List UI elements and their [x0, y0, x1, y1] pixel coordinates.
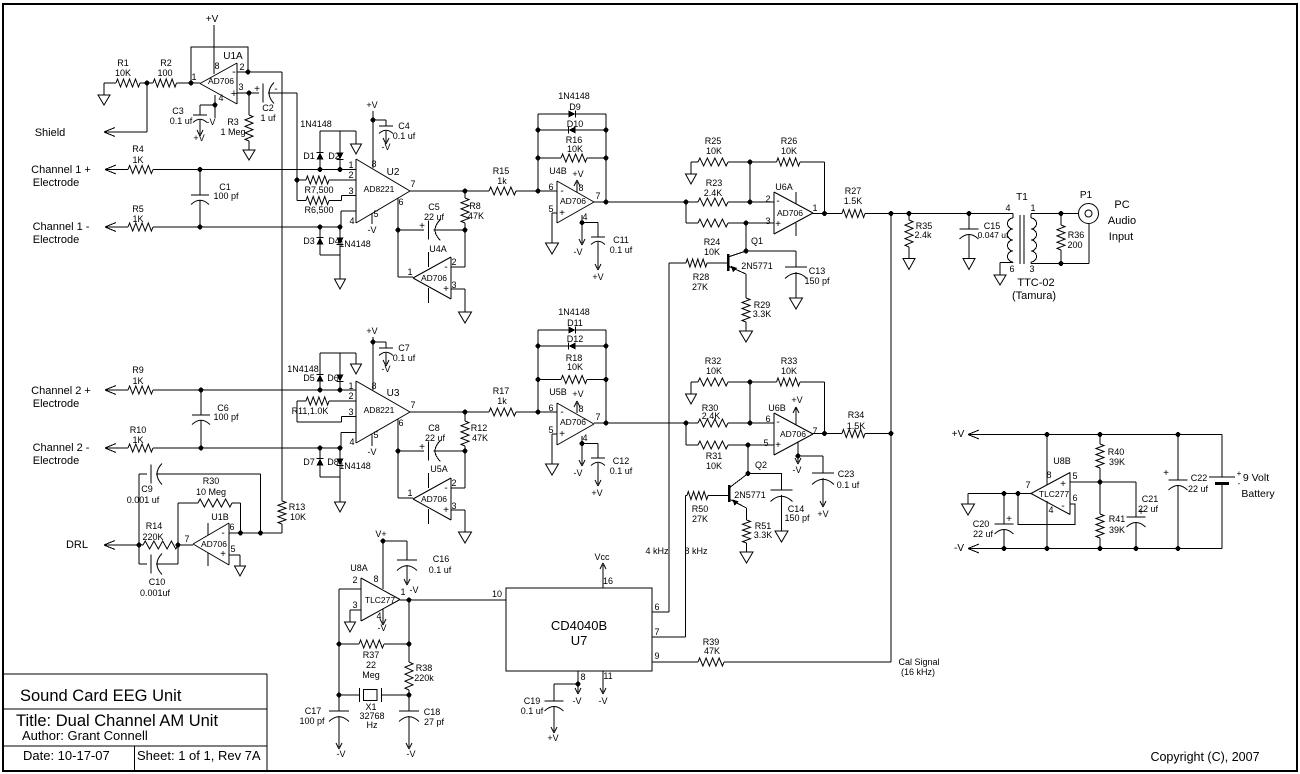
- svg-text:R23: R23: [706, 178, 723, 188]
- svg-text:R28: R28: [693, 272, 710, 282]
- svg-text:+: +: [1006, 514, 1012, 525]
- svg-text:1: 1: [407, 267, 412, 277]
- svg-text:-: -: [232, 66, 236, 78]
- svg-text:-: -: [444, 262, 447, 273]
- svg-text:2.4K: 2.4K: [704, 188, 723, 198]
- svg-text:DRL: DRL: [66, 539, 88, 551]
- svg-text:8: 8: [578, 404, 583, 414]
- svg-text:-: -: [1061, 501, 1064, 512]
- svg-text:47K: 47K: [472, 433, 488, 443]
- svg-text:7: 7: [812, 426, 817, 436]
- svg-text:R11,1.0K: R11,1.0K: [292, 406, 329, 416]
- svg-text:T1: T1: [1016, 192, 1028, 203]
- svg-text:D4: D4: [328, 236, 340, 246]
- svg-text:C21: C21: [1142, 494, 1159, 504]
- svg-text:-V: -V: [574, 247, 583, 257]
- svg-text:10K: 10K: [115, 68, 131, 78]
- svg-text:C8: C8: [428, 423, 440, 433]
- svg-text:8: 8: [371, 159, 376, 169]
- svg-text:U8B: U8B: [1053, 456, 1071, 466]
- svg-text:27K: 27K: [692, 514, 708, 524]
- svg-text:2.4k: 2.4k: [914, 230, 932, 240]
- svg-text:+V: +V: [193, 133, 204, 143]
- svg-text:R31: R31: [706, 451, 723, 461]
- svg-text:C7: C7: [398, 343, 410, 353]
- svg-text:Hz: Hz: [367, 720, 378, 730]
- svg-text:22: 22: [366, 660, 376, 670]
- svg-text:1K: 1K: [132, 214, 143, 224]
- svg-text:-V: -V: [407, 749, 416, 759]
- svg-text:220k: 220k: [414, 673, 434, 683]
- svg-text:+V: +V: [366, 326, 377, 336]
- svg-text:Audio: Audio: [1108, 215, 1136, 227]
- svg-text:U7: U7: [571, 633, 588, 648]
- svg-text:C11: C11: [613, 235, 629, 245]
- svg-text:AD706: AD706: [777, 208, 803, 218]
- svg-text:-: -: [560, 186, 563, 197]
- svg-text:10K: 10K: [781, 146, 797, 156]
- svg-text:0.1 uf: 0.1 uf: [837, 480, 860, 490]
- svg-text:-V: -V: [337, 749, 346, 759]
- svg-text:Sound Card EEG Unit: Sound Card EEG Unit: [20, 687, 182, 705]
- svg-text:3: 3: [451, 280, 456, 290]
- svg-text:-V: -V: [368, 225, 377, 235]
- svg-text:-V: -V: [368, 447, 377, 457]
- svg-text:1.5K: 1.5K: [844, 196, 863, 206]
- svg-text:0.1 uf: 0.1 uf: [393, 353, 416, 363]
- svg-text:7: 7: [595, 412, 600, 422]
- svg-text:-V: -V: [382, 364, 391, 374]
- svg-text:39K: 39K: [1109, 457, 1125, 467]
- svg-text:U5A: U5A: [430, 464, 448, 474]
- svg-text:R9: R9: [132, 365, 144, 375]
- svg-text:3: 3: [1029, 264, 1034, 274]
- svg-text:U1A: U1A: [223, 51, 243, 62]
- svg-text:1k: 1k: [497, 396, 507, 406]
- svg-text:9: 9: [654, 651, 659, 661]
- svg-text:AD8221: AD8221: [364, 405, 395, 415]
- svg-text:Electrode: Electrode: [33, 455, 79, 467]
- svg-text:C19: C19: [524, 696, 541, 706]
- svg-text:R33: R33: [781, 356, 798, 366]
- svg-text:-V: -V: [573, 696, 582, 706]
- svg-text:-V: -V: [207, 117, 216, 127]
- svg-text:8: 8: [580, 672, 585, 682]
- svg-text:Q1: Q1: [751, 236, 763, 246]
- svg-text:7: 7: [184, 534, 189, 544]
- svg-text:6: 6: [398, 418, 403, 428]
- svg-text:8: 8: [371, 381, 376, 391]
- svg-text:U6B: U6B: [768, 403, 786, 413]
- svg-text:C3: C3: [172, 106, 184, 116]
- svg-text:10K: 10K: [290, 512, 306, 522]
- svg-text:2: 2: [239, 62, 244, 72]
- svg-text:47K: 47K: [468, 211, 484, 221]
- svg-text:100: 100: [157, 68, 172, 78]
- svg-text:+: +: [775, 219, 781, 230]
- svg-text:C10: C10: [149, 577, 166, 587]
- svg-text:7: 7: [410, 179, 415, 189]
- svg-text:-V: -V: [793, 465, 802, 475]
- svg-text:AD706: AD706: [560, 196, 586, 206]
- svg-text:5: 5: [1072, 471, 1077, 481]
- svg-text:5: 5: [373, 430, 378, 440]
- svg-text:10K: 10K: [567, 144, 583, 154]
- svg-text:Channel 1 -: Channel 1 -: [33, 221, 90, 233]
- svg-text:0.1 uf: 0.1 uf: [521, 706, 544, 716]
- svg-text:6: 6: [1009, 264, 1014, 274]
- svg-text:150 pf: 150 pf: [804, 276, 830, 286]
- svg-text:2N5771: 2N5771: [734, 490, 766, 500]
- svg-text:+: +: [443, 284, 449, 295]
- svg-text:R3: R3: [227, 117, 239, 127]
- svg-text:1: 1: [191, 72, 196, 82]
- svg-text:U4A: U4A: [429, 244, 447, 254]
- svg-text:-: -: [274, 84, 277, 95]
- svg-text:V+: V+: [375, 529, 386, 539]
- svg-text:10K: 10K: [706, 146, 722, 156]
- svg-text:10 Meg: 10 Meg: [196, 487, 226, 497]
- svg-text:-: -: [221, 528, 224, 539]
- svg-text:10K: 10K: [781, 366, 797, 376]
- svg-text:Copyright (C), 2007: Copyright (C), 2007: [1150, 750, 1259, 764]
- svg-text:1: 1: [407, 488, 412, 498]
- svg-text:22 uf: 22 uf: [425, 433, 446, 443]
- svg-text:U3: U3: [387, 388, 400, 399]
- svg-text:0.1 uf: 0.1 uf: [429, 565, 452, 575]
- svg-text:6: 6: [548, 403, 553, 413]
- svg-text:C9: C9: [141, 484, 153, 494]
- svg-text:Sheet: 1 of 1, Rev 7A: Sheet: 1 of 1, Rev 7A: [137, 748, 261, 763]
- svg-text:+V: +V: [791, 395, 802, 405]
- svg-text:R5: R5: [132, 204, 144, 214]
- svg-text:1N4148: 1N4148: [558, 307, 590, 317]
- svg-text:+: +: [419, 442, 425, 453]
- svg-text:C23: C23: [838, 469, 855, 479]
- svg-text:6: 6: [1072, 493, 1077, 503]
- svg-text:-: -: [444, 483, 447, 494]
- svg-text:R36: R36: [1068, 230, 1085, 240]
- svg-text:D10: D10: [567, 119, 584, 129]
- svg-text:5: 5: [548, 204, 553, 214]
- svg-text:Channel 2 +: Channel 2 +: [31, 385, 91, 397]
- svg-text:(Tamura): (Tamura): [1012, 290, 1056, 302]
- svg-text:D9: D9: [569, 102, 581, 112]
- svg-text:6: 6: [654, 602, 659, 612]
- svg-text:1k: 1k: [497, 176, 507, 186]
- svg-text:+: +: [1237, 469, 1242, 478]
- svg-text:D5: D5: [303, 373, 315, 383]
- svg-text:C13: C13: [809, 266, 826, 276]
- svg-text:8: 8: [578, 183, 583, 193]
- svg-text:0.1 uf: 0.1 uf: [610, 466, 633, 476]
- svg-text:10K: 10K: [706, 461, 722, 471]
- svg-text:R26: R26: [781, 136, 798, 146]
- svg-text:U5B: U5B: [549, 387, 567, 397]
- svg-text:2N5771: 2N5771: [741, 261, 773, 271]
- svg-text:R1: R1: [117, 58, 129, 68]
- svg-text:+: +: [231, 88, 237, 100]
- svg-text:TLC277: TLC277: [365, 595, 396, 605]
- svg-text:P1: P1: [1080, 190, 1093, 201]
- svg-text:-V: -V: [599, 696, 608, 706]
- svg-text:CD4040B: CD4040B: [551, 618, 607, 633]
- svg-text:+V: +V: [572, 169, 583, 179]
- svg-text:(16 kHz): (16 kHz): [901, 667, 935, 677]
- svg-text:+V: +V: [591, 488, 602, 498]
- svg-text:+: +: [419, 221, 425, 232]
- svg-text:10K: 10K: [567, 362, 583, 372]
- svg-text:22 uf: 22 uf: [424, 212, 445, 222]
- svg-text:D1: D1: [303, 151, 315, 161]
- svg-text:C18: C18: [424, 707, 441, 717]
- svg-text:TTC-02: TTC-02: [1017, 277, 1054, 289]
- svg-text:27 pf: 27 pf: [424, 717, 445, 727]
- svg-text:C22: C22: [1191, 473, 1208, 483]
- svg-text:R6,500: R6,500: [304, 205, 333, 215]
- svg-text:39K: 39K: [1109, 525, 1125, 535]
- svg-text:1K: 1K: [132, 155, 143, 165]
- svg-text:-V: -V: [378, 623, 387, 633]
- svg-text:R4: R4: [132, 144, 144, 154]
- svg-text:D12: D12: [567, 334, 584, 344]
- svg-text:Electrode: Electrode: [33, 398, 79, 410]
- svg-text:8 kHz: 8 kHz: [684, 546, 708, 556]
- svg-text:10K: 10K: [706, 366, 722, 376]
- svg-text:1 Meg: 1 Meg: [220, 127, 245, 137]
- svg-text:11: 11: [603, 671, 612, 681]
- svg-text:R13: R13: [289, 502, 306, 512]
- svg-text:PC: PC: [1114, 199, 1129, 211]
- svg-text:U2: U2: [387, 167, 400, 178]
- svg-text:R38: R38: [416, 663, 433, 673]
- svg-text:-V: -V: [954, 543, 964, 554]
- svg-text:220K: 220K: [142, 532, 163, 542]
- svg-text:U6A: U6A: [775, 182, 793, 192]
- svg-text:10K: 10K: [704, 247, 720, 257]
- svg-text:U1B: U1B: [211, 512, 229, 522]
- svg-text:AD706: AD706: [560, 417, 586, 427]
- svg-text:7: 7: [654, 627, 659, 637]
- svg-text:3.3K: 3.3K: [753, 309, 772, 319]
- svg-text:-: -: [776, 196, 779, 207]
- svg-text:2: 2: [348, 170, 353, 180]
- svg-text:Q2: Q2: [755, 460, 767, 470]
- svg-text:4 kHz: 4 kHz: [645, 546, 669, 556]
- svg-text:1K: 1K: [132, 435, 143, 445]
- svg-text:C17: C17: [305, 706, 322, 716]
- svg-text:7: 7: [595, 191, 600, 201]
- svg-text:+V: +V: [592, 272, 603, 282]
- svg-text:D6: D6: [327, 373, 339, 383]
- svg-text:8: 8: [214, 61, 219, 71]
- svg-text:6: 6: [548, 182, 553, 192]
- svg-text:+V: +V: [547, 733, 558, 743]
- svg-text:0.001uf: 0.001uf: [140, 588, 171, 598]
- svg-text:7: 7: [1025, 480, 1030, 490]
- svg-text:R27: R27: [845, 186, 862, 196]
- svg-text:Channel 2 -: Channel 2 -: [33, 442, 90, 454]
- svg-text:Electrode: Electrode: [33, 177, 79, 189]
- svg-text:+V: +V: [817, 509, 828, 519]
- svg-text:U8A: U8A: [350, 563, 368, 573]
- svg-text:2: 2: [451, 478, 456, 488]
- svg-text:R17: R17: [493, 386, 510, 396]
- svg-text:1K: 1K: [132, 376, 143, 386]
- svg-text:2: 2: [352, 575, 357, 585]
- svg-text:AD8221: AD8221: [364, 184, 395, 194]
- svg-text:2: 2: [765, 194, 770, 204]
- svg-text:4: 4: [1048, 505, 1053, 515]
- svg-text:22 uf: 22 uf: [1138, 504, 1159, 514]
- svg-text:4: 4: [582, 433, 587, 443]
- svg-text:6: 6: [229, 522, 234, 532]
- svg-text:1N4148: 1N4148: [558, 91, 590, 101]
- svg-text:R50: R50: [692, 504, 709, 514]
- svg-text:+V: +V: [952, 429, 965, 440]
- svg-text:R8: R8: [469, 201, 481, 211]
- svg-text:3: 3: [451, 501, 456, 511]
- svg-text:R41: R41: [1109, 514, 1126, 524]
- svg-text:AD706: AD706: [201, 539, 227, 549]
- svg-text:2: 2: [451, 257, 456, 267]
- svg-text:1: 1: [400, 587, 405, 597]
- svg-text:TLC277: TLC277: [1039, 489, 1070, 499]
- svg-text:Electrode: Electrode: [33, 234, 79, 246]
- svg-text:4: 4: [582, 212, 587, 222]
- svg-text:22 uf: 22 uf: [973, 529, 994, 539]
- svg-text:D3: D3: [303, 236, 315, 246]
- svg-text:3: 3: [348, 186, 353, 196]
- svg-text:27K: 27K: [692, 282, 708, 292]
- svg-text:1N4148: 1N4148: [339, 239, 371, 249]
- svg-text:R14: R14: [146, 521, 163, 531]
- svg-text:R2: R2: [160, 58, 172, 68]
- svg-text:0.1 uf: 0.1 uf: [393, 131, 416, 141]
- svg-text:+V: +V: [572, 389, 583, 399]
- svg-text:0.1 uf: 0.1 uf: [610, 245, 633, 255]
- svg-text:5: 5: [548, 425, 553, 435]
- svg-text:1 uf: 1 uf: [260, 113, 276, 123]
- svg-text:Meg: Meg: [362, 670, 380, 680]
- svg-text:R12: R12: [471, 423, 488, 433]
- svg-text:1N4148: 1N4148: [339, 461, 371, 471]
- svg-text:1: 1: [348, 160, 353, 170]
- svg-text:+: +: [559, 429, 565, 440]
- svg-text:2.4K: 2.4K: [702, 411, 721, 421]
- svg-text:-: -: [776, 417, 779, 428]
- svg-text:C12: C12: [613, 456, 630, 466]
- svg-text:22 uf: 22 uf: [1188, 484, 1209, 494]
- svg-text:3: 3: [348, 407, 353, 417]
- svg-text:1N4148: 1N4148: [300, 119, 332, 129]
- svg-text:200: 200: [1067, 240, 1082, 250]
- svg-text:D7: D7: [303, 457, 315, 467]
- svg-text:C20: C20: [973, 519, 990, 529]
- svg-text:100 pf: 100 pf: [213, 191, 239, 201]
- svg-text:R10: R10: [130, 425, 147, 435]
- svg-text:7: 7: [410, 400, 415, 410]
- svg-text:1.5K: 1.5K: [847, 421, 866, 431]
- svg-text:150 pf: 150 pf: [784, 513, 810, 523]
- svg-text:+V: +V: [206, 14, 219, 25]
- svg-text:-V: -V: [574, 468, 583, 478]
- svg-text:C2: C2: [262, 103, 274, 113]
- svg-text:0.047 uf: 0.047 uf: [978, 230, 1009, 240]
- svg-text:9 Volt: 9 Volt: [1243, 472, 1269, 484]
- svg-text:Input: Input: [1109, 231, 1133, 243]
- svg-text:+V: +V: [366, 100, 377, 110]
- svg-text:Vcc: Vcc: [594, 552, 610, 562]
- svg-text:-V: -V: [410, 585, 419, 595]
- svg-text:47K: 47K: [704, 646, 720, 656]
- svg-text:3: 3: [352, 600, 357, 610]
- svg-text:-V: -V: [382, 142, 391, 152]
- svg-text:R25: R25: [705, 136, 722, 146]
- svg-text:+: +: [443, 505, 449, 516]
- svg-text:-: -: [560, 407, 563, 418]
- svg-text:R15: R15: [493, 166, 510, 176]
- svg-text:D8: D8: [327, 457, 339, 467]
- svg-text:AD706: AD706: [421, 273, 447, 283]
- svg-text:1: 1: [1030, 203, 1035, 213]
- svg-text:Battery: Battery: [1241, 488, 1275, 500]
- svg-text:5: 5: [373, 209, 378, 219]
- svg-text:AD706: AD706: [421, 494, 447, 504]
- svg-text:1: 1: [348, 381, 353, 391]
- svg-text:2: 2: [348, 391, 353, 401]
- svg-text:6: 6: [398, 197, 403, 207]
- svg-text:R40: R40: [1108, 447, 1125, 457]
- svg-text:C4: C4: [398, 121, 410, 131]
- svg-text:4: 4: [1005, 203, 1010, 213]
- svg-text:10: 10: [492, 589, 502, 599]
- svg-text:3: 3: [765, 216, 770, 226]
- svg-text:6: 6: [765, 414, 770, 424]
- svg-text:D11: D11: [567, 318, 583, 328]
- svg-text:0.001 uf: 0.001 uf: [127, 495, 160, 505]
- svg-text:R7,500: R7,500: [304, 185, 333, 195]
- svg-text:5: 5: [230, 544, 235, 554]
- svg-text:100 pf: 100 pf: [213, 412, 239, 422]
- svg-text:100 pf: 100 pf: [299, 716, 325, 726]
- svg-text:+: +: [1060, 479, 1066, 490]
- svg-text:Channel 1 +: Channel 1 +: [31, 164, 91, 176]
- svg-text:C16: C16: [433, 554, 450, 564]
- svg-text:+: +: [1163, 468, 1169, 479]
- svg-text:+: +: [220, 549, 226, 560]
- svg-text:16: 16: [603, 576, 613, 586]
- svg-text:R32: R32: [705, 356, 722, 366]
- svg-text:AD706: AD706: [780, 429, 806, 439]
- svg-text:+: +: [775, 440, 781, 451]
- svg-text:R30: R30: [203, 476, 220, 486]
- svg-text:4: 4: [349, 216, 354, 226]
- svg-text:Shield: Shield: [35, 127, 66, 139]
- svg-text:1: 1: [812, 203, 817, 213]
- svg-text:C5: C5: [428, 202, 440, 212]
- svg-text:Date: 10-17-07: Date: 10-17-07: [23, 748, 110, 763]
- svg-text:D2: D2: [328, 151, 340, 161]
- svg-text:8: 8: [373, 574, 378, 584]
- svg-text:-: -: [1238, 479, 1241, 488]
- svg-text:R37: R37: [363, 650, 380, 660]
- svg-text:5: 5: [763, 438, 768, 448]
- svg-text:4: 4: [349, 437, 354, 447]
- svg-text:U4B: U4B: [549, 166, 567, 176]
- svg-text:4: 4: [218, 93, 223, 103]
- svg-text:R34: R34: [848, 410, 865, 420]
